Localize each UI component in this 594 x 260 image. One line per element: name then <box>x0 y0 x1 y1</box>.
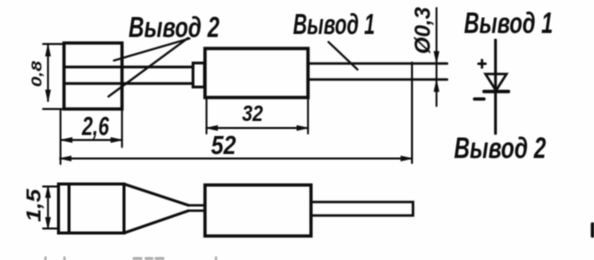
flat lead tab (top view) <box>64 43 122 109</box>
flat lead tab (side view) <box>59 184 125 233</box>
label 2,6 <box>81 111 109 141</box>
svg-text:32: 32 <box>242 101 264 126</box>
extension line wire end / 52 dim right <box>411 63 413 164</box>
svg-text:Вывод 1: Вывод 1 <box>464 7 553 40</box>
label Vyvod 1 (top view) <box>293 9 375 41</box>
label 32 <box>242 101 264 126</box>
svg-text:Ø0,3: Ø0,3 <box>410 7 435 54</box>
svg-text:2,6: 2,6 <box>81 111 109 141</box>
label 1,5 (rotated) <box>24 188 46 222</box>
label Vyvod 1 (diode symbol) <box>464 7 553 40</box>
wire neck (side view) <box>189 205 206 210</box>
dimension 1,5 <box>43 187 59 229</box>
svg-text:Вывод 2: Вывод 2 <box>129 12 220 44</box>
minus sign <box>475 97 485 100</box>
bead collar <box>193 63 205 87</box>
dimension dia 0.3 <box>434 8 439 106</box>
scan mark right edge <box>591 224 594 236</box>
svg-text:0,8: 0,8 <box>29 60 46 87</box>
label 0,8 (rotated) <box>29 60 46 87</box>
wire lead 1 (right, top view) <box>308 64 447 80</box>
leader lines Vyvod 2 <box>109 38 190 97</box>
svg-text:Вывод 1: Вывод 1 <box>293 9 375 41</box>
svg-text:Вывод 2: Вывод 2 <box>454 132 546 165</box>
leader line Vyvod 1 <box>329 42 358 70</box>
body (side view) <box>205 185 311 236</box>
body (top view) <box>205 49 308 98</box>
label 52 <box>211 130 236 160</box>
dimension 0,8 <box>43 44 64 109</box>
dimension 32 <box>207 98 309 134</box>
plus sign <box>479 60 486 68</box>
dimension 52 <box>60 156 412 161</box>
label Vyvod 2 (top view) <box>129 12 220 44</box>
svg-text:52: 52 <box>211 130 236 160</box>
dimension 2,6 <box>61 110 123 164</box>
diode symbol VD <box>484 40 509 134</box>
label Vyvod 2 (diode symbol) <box>454 132 546 165</box>
svg-text:1,5: 1,5 <box>24 188 46 222</box>
wire lead 2 (left, top view) <box>64 67 193 84</box>
taper (side view) <box>124 184 189 233</box>
cropped text remnants at bottom edge <box>46 258 217 260</box>
wire lead 1 (side view) <box>311 202 413 216</box>
label dia 0,3 (rotated) <box>410 7 435 54</box>
